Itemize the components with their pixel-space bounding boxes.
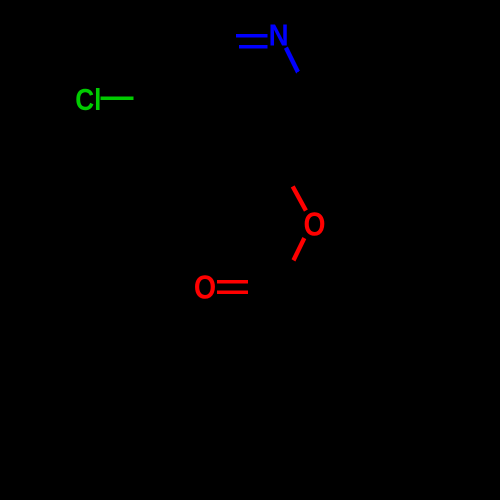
bond C4=C5 (black, invisible) bbox=[168, 98, 204, 161]
atom label O (ester oxygen) bbox=[303, 206, 325, 244]
phenyl ring inner double bond lines (black, invisible) bbox=[259, 362, 369, 449]
bond C3-O ester, O red half bbox=[291, 185, 308, 211]
bond O-C7, C7 black half bbox=[278, 262, 292, 286]
bond C2=C3 inner line (black, invisible) bbox=[271, 101, 303, 156]
atom label N (pyridine nitrogen) bbox=[269, 18, 289, 53]
bond C7-C8 phenyl ipso (black, invisible) bbox=[278, 285, 314, 348]
bond C5-Cl, C5 black half bbox=[134, 96, 169, 99]
bond C5-Cl, Cl green half bbox=[100, 97, 134, 100]
svg-text:N: N bbox=[269, 18, 289, 53]
bond C7=O carbonyl upper line, O red half bbox=[217, 280, 249, 283]
svg-text:Cl: Cl bbox=[75, 83, 101, 117]
bond C4=C5 inner line (black, invisible) bbox=[180, 101, 212, 156]
bond N1=C6 inner line, N blue half bbox=[239, 45, 268, 49]
bond C3-C4 (black, invisible) bbox=[205, 159, 278, 162]
bond C7=O carbonyl lower line, C7 black half bbox=[248, 291, 278, 294]
phenyl ring (black, invisible) bbox=[251, 348, 377, 493]
bond N1-C2, N blue half bbox=[284, 47, 300, 74]
svg-text:O: O bbox=[194, 268, 216, 305]
atom label Cl (chlorine) bbox=[75, 83, 101, 117]
bond C7=O carbonyl lower line, O red half bbox=[217, 291, 249, 294]
atom label O (carbonyl oxygen) bbox=[194, 268, 216, 305]
svg-text:O: O bbox=[303, 206, 325, 244]
bond C2=C3 (black, invisible) bbox=[278, 98, 314, 161]
bond O-C7 carbonyl carbon, O red half bbox=[292, 237, 307, 262]
bond N1=C6 inner line, C6 black half bbox=[210, 45, 239, 48]
bond C3-O ester, C3 black half bbox=[278, 161, 293, 186]
bond N1=C6 main line, N blue half bbox=[236, 34, 268, 38]
bond N1-C2, C2 black half bbox=[298, 72, 314, 98]
bond C7=O carbonyl upper line, C7 black half bbox=[248, 280, 278, 283]
bond C5-C6 (black, invisible) bbox=[168, 35, 204, 98]
bond N1=C6 main line, C6 black half bbox=[205, 34, 236, 37]
